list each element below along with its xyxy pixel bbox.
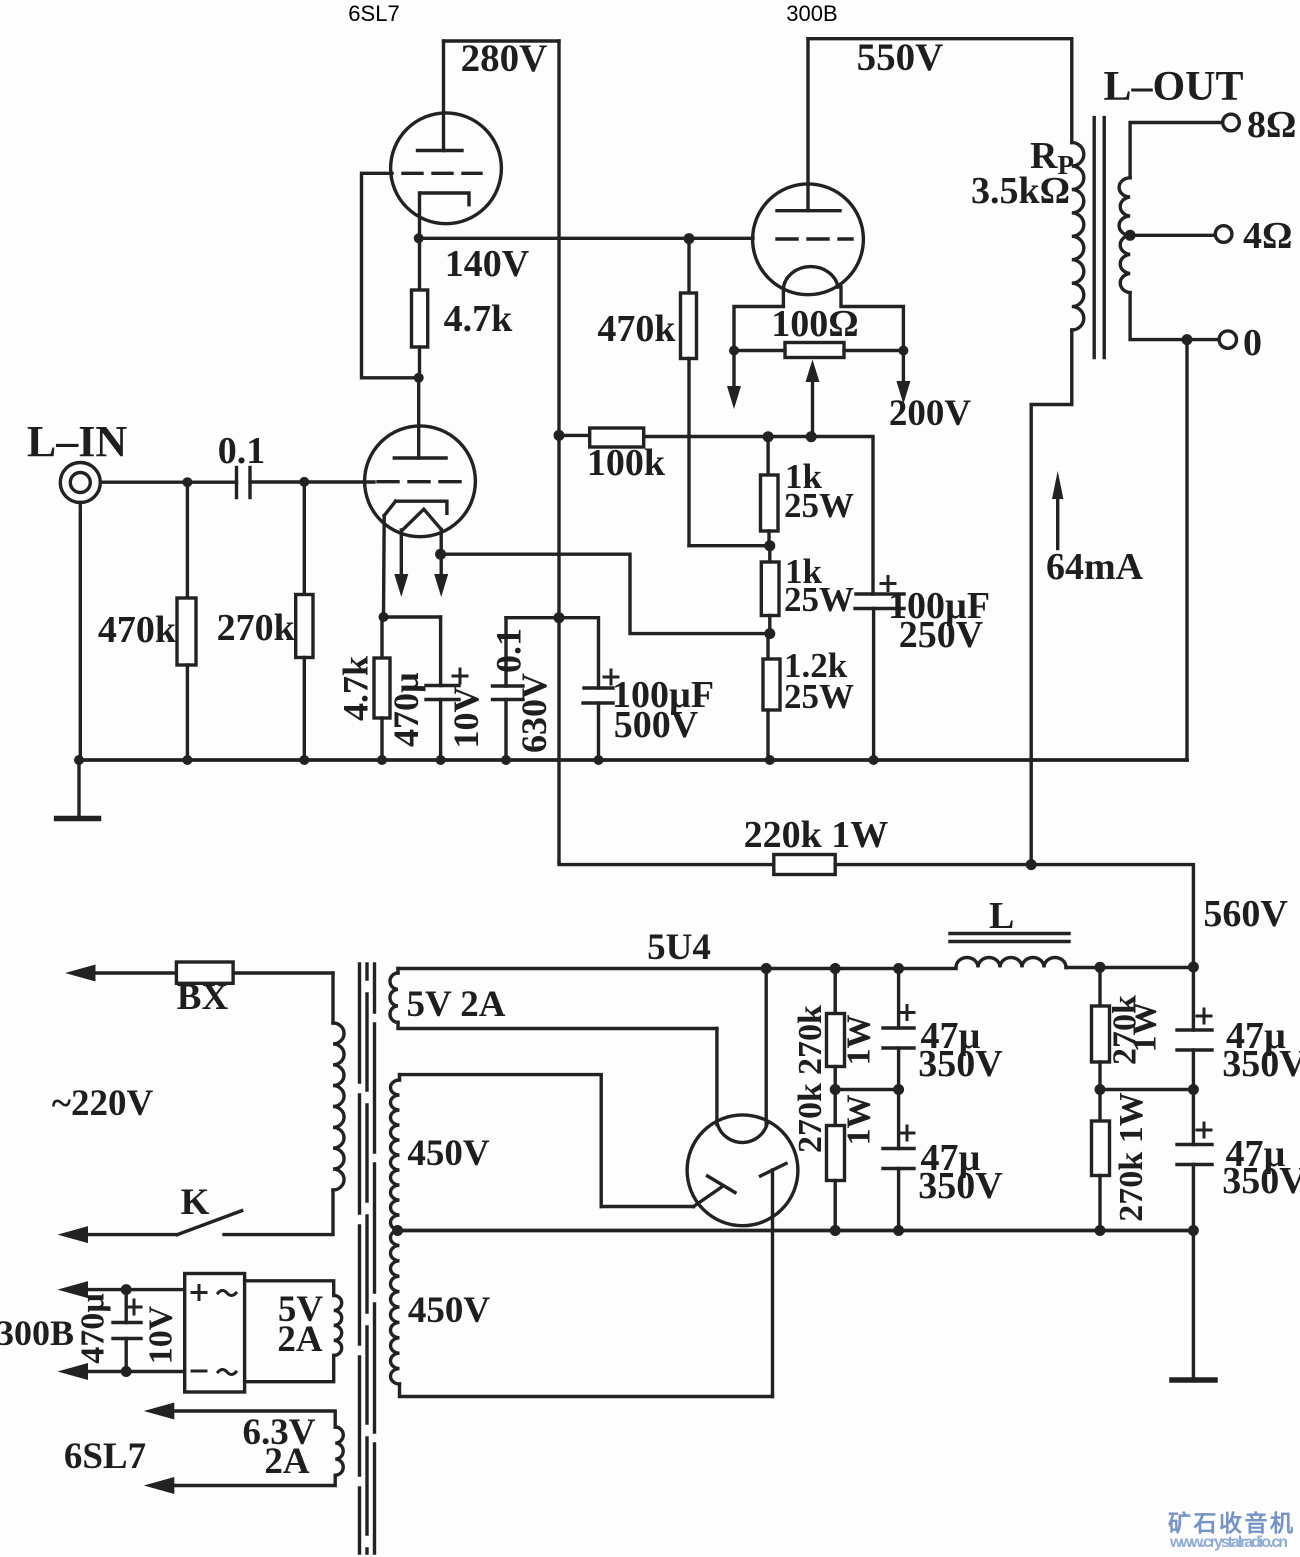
wire B+ rail	[398, 967, 956, 970]
svg-text:250V: 250V	[899, 614, 984, 656]
resistor 4.7k cathode	[374, 617, 390, 760]
svg-text:1W: 1W	[840, 1015, 877, 1066]
resistor 220k 1W	[559, 855, 1193, 967]
node OPT B+	[1026, 859, 1037, 870]
node 0.1 top	[554, 612, 565, 623]
arrow 64mA	[1052, 471, 1063, 549]
wire V1b cathode lead	[418, 193, 421, 238]
svg-text:3.5kΩ: 3.5kΩ	[971, 170, 1070, 212]
svg-text:280V: 280V	[461, 37, 548, 80]
node bias top	[763, 431, 774, 442]
svg-text:1W: 1W	[840, 1095, 877, 1146]
transformer OPT primary	[808, 39, 1084, 865]
arrow 300B filament lower	[58, 1363, 185, 1380]
resistor 1k 25W no1	[761, 437, 779, 546]
svg-text:470µ: 470µ	[386, 672, 426, 747]
ground symbol left	[57, 760, 99, 819]
svg-text:4Ω: 4Ω	[1243, 215, 1292, 257]
svg-text:0.1: 0.1	[488, 628, 528, 673]
plus 100uF500V	[604, 670, 618, 684]
wire B+ after choke	[1066, 966, 1193, 969]
winding 450V upper	[391, 1075, 602, 1230]
svg-text:470µ: 470µ	[75, 1293, 112, 1364]
plus 470u bottom	[127, 1300, 141, 1314]
winding 5V 2A (5U4)	[390, 969, 717, 1029]
svg-text:450V: 450V	[408, 1290, 491, 1331]
rectifier 5U4	[687, 969, 798, 1397]
node cathode	[379, 612, 389, 622]
node filter mid left	[830, 1084, 841, 1095]
switch K	[58, 1211, 242, 1243]
node filament tap	[435, 549, 446, 560]
terminal 0	[1219, 331, 1236, 348]
svg-text:10V: 10V	[446, 687, 486, 749]
capacitor 470u 10V bottom	[113, 1290, 141, 1372]
svg-text:270k 1W: 270k 1W	[1113, 1092, 1150, 1221]
resistor 100k	[559, 428, 873, 594]
terminal 4ohm	[1215, 226, 1232, 243]
svg-text:0.1: 0.1	[218, 430, 266, 472]
plus 47u no3	[1197, 1009, 1211, 1023]
arrow 300B filament upper	[58, 1281, 185, 1298]
wire 280V top	[444, 39, 560, 42]
wire 4ohm	[1130, 234, 1215, 237]
svg-text:8Ω: 8Ω	[1247, 104, 1296, 146]
capacitor 47u no2	[883, 1090, 914, 1231]
wire filament tap to bias chain	[441, 554, 768, 633]
svg-text:1W: 1W	[1127, 1002, 1164, 1053]
svg-text:L–OUT: L–OUT	[1103, 64, 1243, 110]
plus 47u no1	[900, 1006, 914, 1020]
node 300B grid	[684, 233, 695, 244]
svg-text:4.7k: 4.7k	[336, 656, 376, 721]
winding 6.3V 2A	[144, 1403, 343, 1495]
svg-text:6SL7: 6SL7	[348, 1, 399, 26]
plus 470u	[453, 669, 467, 683]
node pot left	[729, 346, 739, 356]
svg-text:0: 0	[1243, 322, 1262, 364]
svg-text:25W: 25W	[784, 486, 854, 525]
svg-text:~220V: ~220V	[52, 1083, 154, 1124]
svg-text:300B: 300B	[0, 1313, 74, 1353]
node 4ohm tap	[1125, 230, 1136, 241]
svg-text:200V: 200V	[889, 393, 972, 434]
svg-text:300B: 300B	[786, 1, 837, 26]
node bias mid2	[764, 628, 775, 639]
plus 47u no4	[1197, 1123, 1211, 1137]
wire SRPP output to 300B grid	[419, 237, 753, 240]
svg-text:L–IN: L–IN	[27, 417, 127, 466]
svg-text:270k: 270k	[217, 607, 296, 649]
transformer PT primary	[224, 973, 344, 1235]
jack L-IN	[60, 463, 100, 503]
node B+ dots	[761, 962, 1199, 975]
svg-text:350V: 350V	[1222, 1043, 1300, 1085]
node 0 ground	[1182, 334, 1193, 345]
svg-text:560V: 560V	[1203, 893, 1288, 935]
node grid	[299, 477, 309, 487]
svg-text:470k: 470k	[98, 609, 177, 651]
resistor 470k input	[177, 482, 196, 760]
svg-text:5U4: 5U4	[647, 927, 711, 968]
core OPT	[1094, 118, 1104, 358]
plus 100uF250V	[881, 577, 895, 591]
arrow filament right	[896, 351, 910, 405]
svg-text:2A: 2A	[277, 1319, 323, 1360]
tube 300B	[753, 39, 864, 295]
choke L	[950, 934, 1069, 968]
svg-text:450V: 450V	[407, 1133, 490, 1174]
svg-text:www.crystalradio.cn: www.crystalradio.cn	[1169, 1534, 1288, 1551]
core PT	[360, 964, 375, 1553]
capacitor 0.1 630V	[493, 618, 560, 760]
fuse BX	[65, 962, 333, 983]
resistor 470k grid leak	[681, 239, 697, 546]
svg-text:350V: 350V	[918, 1165, 1003, 1207]
capacitor 47u no3	[1177, 967, 1212, 1090]
node lower rail dots	[830, 1225, 1199, 1236]
capacitor 100uF 500V	[559, 618, 613, 760]
wire lower rail	[398, 1229, 1194, 1233]
svg-text:270k: 270k	[792, 1005, 829, 1075]
winding 5V 2A (300B)	[245, 1281, 342, 1382]
resistor 270k input	[296, 482, 313, 760]
resistor 270k 1W no4	[1092, 1090, 1110, 1231]
potentiometer 100ohm	[734, 343, 903, 358]
node 450V center tap	[392, 1225, 403, 1236]
capacitor 100uF 250V	[855, 594, 904, 760]
node bias mid1	[764, 540, 775, 551]
bridge rectifier	[185, 1274, 245, 1393]
svg-text:5V 2A: 5V 2A	[406, 984, 505, 1025]
wire 470k to node2	[689, 544, 770, 547]
svg-text:550V: 550V	[857, 36, 944, 79]
wire 0 to rail	[1185, 340, 1188, 760]
300B filament leads	[734, 287, 903, 350]
plus 47u no2	[900, 1126, 914, 1140]
node cap mid left	[893, 1084, 904, 1095]
triode V1a 6SL7 lower	[365, 378, 476, 537]
svg-text:220k 1W: 220k 1W	[744, 814, 889, 856]
node SRPP output	[414, 233, 424, 243]
triode V1b 6SL7 upper	[391, 41, 502, 224]
capacitor 47u no1	[883, 969, 914, 1090]
svg-text:BX: BX	[177, 977, 229, 1018]
svg-text:630V: 630V	[514, 673, 554, 753]
svg-text:矿石收音机: 矿石收音机	[1168, 1510, 1293, 1536]
svg-text:L: L	[989, 895, 1014, 937]
node filter mid right	[1095, 1084, 1106, 1095]
svg-text:25W: 25W	[784, 580, 854, 619]
node 470u bottom	[121, 1366, 132, 1377]
svg-text:500V: 500V	[614, 704, 699, 746]
resistor 1.2k 25W	[763, 634, 780, 760]
svg-text:350V: 350V	[918, 1043, 1003, 1085]
filament arrows V1a	[394, 529, 448, 597]
winding 450V lower	[390, 1230, 772, 1397]
capacitor 47u no4	[1177, 1090, 1212, 1231]
svg-text:100Ω: 100Ω	[771, 303, 858, 345]
arrow pot wiper	[806, 360, 820, 437]
node 100k left	[554, 430, 565, 441]
wire L-IN ground	[79, 503, 82, 761]
svg-text:4.7k: 4.7k	[444, 298, 514, 340]
wire caps mid left	[835, 1088, 898, 1091]
resistor 1k 25W no2	[761, 546, 779, 634]
wire V1a cathode	[384, 516, 441, 617]
resistor 4.7k (SRPP)	[412, 238, 428, 377]
arrow filament left	[727, 351, 741, 410]
node wiper join	[806, 431, 817, 442]
node pot right	[898, 346, 908, 356]
ground rail	[79, 758, 1187, 762]
svg-text:100k: 100k	[587, 442, 666, 484]
svg-text:64mA: 64mA	[1046, 546, 1144, 588]
node 470u top	[121, 1284, 132, 1295]
wire V1a grid	[250, 480, 374, 483]
terminal 8ohm	[1223, 114, 1240, 131]
node V1a plate	[414, 373, 424, 383]
capacitor 470u cathode	[426, 617, 459, 760]
resistor 270k 1W no2	[827, 1090, 845, 1231]
svg-text:10V: 10V	[143, 1305, 180, 1364]
node input	[182, 477, 192, 487]
svg-text:6SL7: 6SL7	[64, 1436, 146, 1477]
svg-text:K: K	[181, 1182, 210, 1223]
ground symbol right	[1172, 1231, 1215, 1381]
transformer OPT secondary	[1119, 123, 1222, 340]
wire V1b grid loop	[362, 173, 419, 377]
svg-text:270k: 270k	[792, 1083, 829, 1153]
node rail dots	[74, 755, 879, 765]
watermark	[1168, 1510, 1293, 1551]
node 280V rail (main vertical)	[557, 41, 560, 863]
wire caps mid right	[1100, 1088, 1193, 1091]
svg-text:25W: 25W	[784, 677, 854, 716]
svg-text:350V: 350V	[1222, 1160, 1300, 1202]
resistor 270k 1W no1	[827, 969, 845, 1090]
wire 450V top to 5U4	[601, 1205, 693, 1208]
svg-text:140V: 140V	[445, 243, 530, 285]
capacitor 0.1 input	[101, 468, 250, 498]
svg-text:2A: 2A	[264, 1441, 310, 1482]
svg-text:470k: 470k	[597, 308, 676, 350]
node cap mid right	[1188, 1084, 1199, 1095]
resistor 270k 1W no3	[1092, 967, 1110, 1089]
